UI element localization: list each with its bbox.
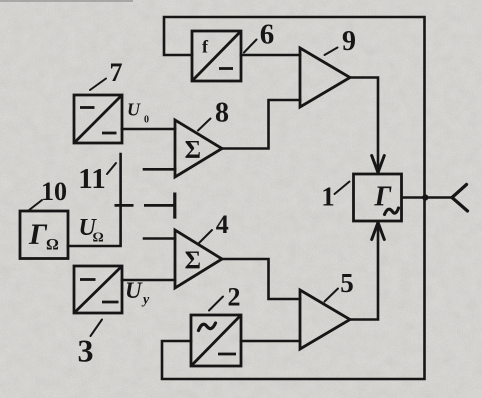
svg-text:Σ: Σ [185, 137, 201, 164]
svg-text:Σ: Σ [185, 247, 201, 274]
svg-text:U: U [127, 100, 141, 120]
svg-text:Γ: Γ [28, 218, 48, 251]
svg-text:1: 1 [321, 182, 335, 212]
svg-text:10: 10 [41, 177, 67, 206]
svg-text:U: U [125, 278, 143, 303]
svg-text:9: 9 [342, 26, 356, 57]
svg-text:Ω: Ω [46, 237, 59, 254]
svg-text:2: 2 [228, 283, 241, 312]
svg-text:6: 6 [260, 19, 275, 51]
svg-text:Ω: Ω [93, 231, 104, 246]
svg-text:f: f [202, 37, 209, 57]
svg-text:3: 3 [78, 333, 94, 369]
svg-text:0: 0 [144, 115, 149, 126]
svg-text:5: 5 [340, 268, 354, 298]
svg-text:4: 4 [216, 210, 229, 239]
svg-text:11: 11 [78, 163, 105, 195]
svg-text:y: y [141, 293, 150, 308]
svg-text:8: 8 [215, 98, 229, 129]
svg-text:7: 7 [110, 58, 123, 87]
